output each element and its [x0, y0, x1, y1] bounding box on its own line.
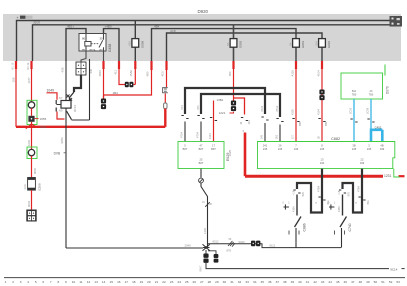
svg-text:241: 241 — [263, 144, 268, 148]
svg-text:26: 26 — [192, 280, 196, 284]
svg-text:43: 43 — [321, 280, 325, 284]
wire 1600 bus (thick red) — [16, 109, 165, 127]
wire 9000 — [31, 156, 33, 178]
svg-text:B61: B61 — [324, 121, 328, 126]
svg-text:5: 5 — [184, 144, 186, 148]
svg-text:33: 33 — [245, 280, 249, 284]
svg-text:N9: N9 — [59, 108, 63, 112]
svg-text:47: 47 — [200, 144, 203, 148]
svg-text:B29: B29 — [302, 192, 305, 197]
svg-text:3100: 3100 — [33, 21, 40, 25]
svg-text:E059: E059 — [140, 40, 144, 47]
svg-text:+4B0: +4B0 — [105, 25, 112, 29]
node 1221 stub — [230, 112, 234, 113]
svg-text:5A: 5A — [226, 42, 230, 45]
svg-text:=1B: =1B — [338, 190, 341, 195]
wire K1 12 exit (x31.5) — [30, 61, 32, 69]
svg-text:490: 490 — [84, 67, 88, 72]
wire 4T84 (C882 pin feed, switch C740) — [343, 169, 363, 213]
wire 3B10 exit (x103.5 relay 87) — [102, 61, 104, 69]
svg-text:B78: B78 — [348, 192, 351, 197]
cyan jumper C402 — [370, 129, 373, 142]
svg-text:28: 28 — [208, 280, 212, 284]
svg-text:245: 245 — [263, 147, 268, 151]
svg-text:=1B: =1B — [292, 190, 295, 195]
svg-text:4T84: 4T84 — [357, 186, 361, 192]
svg-text:7: 7 — [50, 280, 52, 284]
wire 4B1+ (bridge to relay coil) — [66, 29, 86, 61]
wire down to ground bus via connectors — [166, 70, 168, 87]
svg-text:22: 22 — [162, 280, 166, 284]
wire K1 15 exit (x16) — [15, 61, 17, 69]
splice at lamp bus — [26, 122, 38, 129]
svg-text:10B: 10B — [11, 77, 15, 82]
svg-text:TB0: TB0 — [369, 94, 374, 97]
svg-text:B0T: B0T — [199, 147, 204, 151]
lamp B60 (lower, green highlight) — [27, 147, 37, 159]
svg-text:26: 26 — [317, 136, 321, 139]
svg-text:41: 41 — [306, 280, 310, 284]
ruler numbers — [5, 280, 400, 284]
svg-text:245: 245 — [367, 147, 372, 151]
module E629 — [178, 142, 224, 169]
svg-text:4T24: 4T24 — [180, 132, 184, 138]
wire 2C06 (cyan) — [370, 99, 372, 130]
splice fan 878 — [228, 241, 235, 247]
svg-text:3: 3 — [368, 144, 370, 148]
legend +30 — [17, 16, 33, 20]
junction to 1331 branch — [234, 98, 245, 115]
svg-text:9040: 9040 — [239, 240, 245, 244]
svg-text:43B6: 43B6 — [338, 206, 341, 212]
svg-text:9050: 9050 — [60, 137, 64, 144]
connector 4-cell end — [26, 210, 36, 222]
svg-text:B61: B61 — [367, 200, 370, 205]
svg-text:49: 49 — [366, 280, 370, 284]
svg-text:E061: E061 — [301, 40, 305, 47]
svg-text:E206: E206 — [38, 183, 42, 191]
svg-text:4714: 4714 — [275, 105, 279, 112]
wire 1400 (jog to x207.5) — [201, 183, 208, 248]
svg-text:3B: 3B — [352, 144, 355, 148]
wire 1B4 (to connector 1204) — [104, 70, 152, 95]
svg-text:35: 35 — [260, 280, 264, 284]
svg-text:43B: 43B — [60, 67, 64, 72]
svg-text:049: 049 — [360, 161, 365, 165]
svg-text:8: 8 — [58, 280, 60, 284]
splice star S207 — [203, 244, 210, 251]
inline connector pair on U-link — [125, 82, 129, 87]
svg-text:8012: 8012 — [213, 240, 219, 244]
svg-text:4B0: 4B0 — [146, 71, 150, 76]
wire 15A0 exit (x135.3) — [134, 61, 136, 69]
svg-text:D920: D920 — [198, 9, 209, 14]
svg-text:1B0: 1B0 — [228, 71, 232, 76]
switch C740 — [329, 204, 334, 209]
svg-text:0,: 0, — [315, 201, 318, 203]
svg-text:50: 50 — [374, 280, 378, 284]
wire 9004 — [31, 190, 33, 209]
wire 1231 main red bus — [245, 175, 383, 178]
svg-text:267A: 267A — [89, 48, 96, 52]
svg-text:4118: 4118 — [291, 109, 295, 115]
svg-text:240: 240 — [320, 161, 325, 165]
connector X1 (right end of rails) — [390, 16, 403, 27]
svg-text:87: 87 — [100, 48, 104, 52]
svg-text:D970: D970 — [385, 86, 389, 94]
wire 4C8 exit (x166.5) — [165, 61, 167, 70]
ground pin stub D970 — [384, 65, 386, 76]
wire 1077 down to lamp — [31, 69, 33, 102]
svg-text:TB0: TB0 — [352, 94, 357, 97]
pin of switch C886 — [293, 190, 300, 193]
svg-text:+: + — [17, 16, 19, 20]
svg-text:36: 36 — [268, 280, 272, 284]
connector below splice — [205, 250, 207, 254]
svg-text:46: 46 — [343, 280, 347, 284]
svg-text:1331: 1331 — [208, 133, 212, 139]
svg-text:1231: 1231 — [384, 174, 392, 178]
svg-text:13: 13 — [321, 157, 324, 161]
wire 1925 thick red feed — [244, 133, 247, 177]
svg-text:23: 23 — [170, 280, 174, 284]
wire 1600 down — [31, 129, 33, 150]
svg-text:7: 7 — [295, 144, 297, 148]
svg-text:1B4: 1B4 — [113, 91, 119, 95]
wire 474 (E629 pin to C882) — [185, 88, 265, 114]
svg-text:2: 2 — [12, 280, 14, 284]
svg-text:17: 17 — [125, 280, 129, 284]
svg-text:B61: B61 — [298, 121, 302, 126]
svg-text:8: 8 — [321, 144, 323, 148]
svg-text:9C14: 9C14 — [390, 267, 398, 271]
svg-text:53: 53 — [396, 280, 400, 284]
svg-text:C882: C882 — [331, 137, 340, 141]
wire 4104 exit (x322 from fuse E091) — [321, 61, 323, 69]
svg-text:5: 5 — [35, 280, 37, 284]
svg-text:1400: 1400 — [203, 227, 207, 234]
rail 2 (3100 bus) — [33, 25, 391, 61]
svg-text:51: 51 — [381, 280, 385, 284]
svg-text:39: 39 — [291, 280, 295, 284]
inline connector on 4104 — [319, 90, 324, 95]
svg-text:24: 24 — [177, 280, 181, 284]
svg-text:27: 27 — [200, 280, 204, 284]
splice box 9C16 — [61, 101, 71, 109]
svg-text:86: 86 — [82, 36, 86, 40]
wire +4B0 (bridge from relay contact 30) — [104, 29, 120, 61]
wire 9C14 — [206, 263, 389, 269]
connector second — [208, 251, 216, 254]
svg-text:049: 049 — [380, 147, 385, 151]
wire 4TB4 (C882 pin feed, switch C886) — [297, 169, 322, 213]
splice symbol below E629 — [199, 178, 204, 183]
svg-text:9007: 9007 — [198, 265, 202, 271]
rail 1 (+30 bus) — [17, 21, 391, 62]
power distribution band background — [3, 14, 401, 61]
svg-text:1600: 1600 — [40, 125, 47, 129]
svg-text:13B1: 13B1 — [217, 98, 224, 102]
inline connector pair bottom — [251, 241, 255, 247]
svg-text:40: 40 — [298, 280, 302, 284]
svg-text:13: 13 — [94, 280, 98, 284]
lamp B55 (upper, green highlight) — [27, 100, 37, 124]
svg-text:E093: E093 — [239, 40, 243, 47]
wire 1B exit (x233.5) — [232, 61, 234, 69]
svg-text:29: 29 — [215, 280, 219, 284]
wire U-link x119 to fuse E059 lead — [119, 69, 135, 85]
svg-text:C402: C402 — [375, 125, 382, 129]
svg-text:471: 471 — [196, 105, 200, 110]
svg-text:245: 245 — [352, 147, 357, 151]
svg-text:5: 5 — [243, 129, 245, 133]
svg-text:85: 85 — [82, 48, 86, 52]
svg-text:44: 44 — [328, 280, 332, 284]
svg-text:2C05: 2C05 — [349, 107, 353, 114]
switch C886 — [284, 204, 289, 209]
svg-text:0,: 0, — [355, 201, 358, 203]
svg-text:E629: E629 — [226, 153, 230, 161]
svg-text:4B: 4B — [380, 144, 383, 148]
wire 471 (E629 pin to C882) — [201, 94, 280, 117]
svg-text:38: 38 — [283, 280, 287, 284]
svg-text:30: 30 — [100, 36, 104, 40]
svg-text:44: 44 — [240, 121, 243, 124]
svg-text:8112: 8112 — [270, 243, 276, 247]
svg-text:1: 1 — [5, 280, 7, 284]
svg-text:B9T: B9T — [211, 147, 216, 151]
svg-text:B6T: B6T — [183, 147, 188, 151]
svg-text:G438: G438 — [108, 44, 112, 52]
svg-text:11: 11 — [79, 280, 82, 284]
svg-text:1: 1 — [334, 201, 336, 204]
wire relay 85 to connector — [81, 51, 86, 62]
svg-text:1655: 1655 — [40, 117, 47, 121]
svg-text:4C8: 4C8 — [170, 29, 176, 33]
svg-text:9C16: 9C16 — [73, 104, 77, 112]
fuse E206 — [28, 178, 36, 191]
wire 13B1 (red to E629 pin 17) — [213, 101, 215, 142]
svg-text:1221: 1221 — [219, 111, 226, 115]
svg-text:4TB4: 4TB4 — [317, 185, 321, 192]
svg-text:DVB: DVB — [54, 152, 61, 156]
svg-text:878: 878 — [227, 249, 232, 253]
svg-text:1049: 1049 — [47, 89, 55, 93]
svg-text:C740: C740 — [348, 223, 352, 231]
svg-text:48: 48 — [359, 280, 363, 284]
ruler baseline — [4, 277, 405, 279]
svg-text:N7: N7 — [59, 96, 63, 100]
svg-text:41A: 41A — [128, 41, 132, 46]
svg-text:16: 16 — [117, 280, 121, 284]
connector 4-way on relay coil return (x81) — [76, 62, 86, 75]
wire 2C05 (cyan) — [353, 99, 355, 142]
wire 9050 bottom run — [66, 247, 203, 249]
svg-text:2040: 2040 — [185, 244, 192, 248]
svg-text:14: 14 — [102, 280, 106, 284]
svg-text:5A: 5A — [288, 42, 292, 45]
svg-text:249: 249 — [294, 147, 299, 151]
svg-text:30: 30 — [223, 280, 227, 284]
wire 43B exit (x66) — [65, 61, 67, 101]
fuse E093 — [226, 39, 243, 48]
svg-text:9: 9 — [65, 280, 67, 284]
svg-text:01: 01 — [202, 201, 205, 204]
svg-text:25: 25 — [185, 280, 189, 284]
svg-text:4T34: 4T34 — [196, 132, 200, 138]
svg-text:4104: 4104 — [316, 70, 320, 77]
svg-text:15A0: 15A0 — [129, 70, 133, 77]
svg-text:1.0A: 1.0A — [24, 184, 27, 189]
svg-text:50: 50 — [229, 238, 232, 241]
node 1655 — [35, 118, 39, 120]
wire tap to fuse E059 — [134, 21, 136, 62]
svg-text:12: 12 — [87, 280, 91, 284]
svg-text:B0T: B0T — [199, 161, 204, 165]
connector 1204 (end of wire 3B10/1B4) — [103, 95, 105, 99]
svg-text:474: 474 — [180, 105, 184, 110]
wire relay 87 down — [103, 51, 105, 61]
wire relay coil return stair — [74, 75, 81, 92]
svg-text:4724: 4724 — [260, 105, 264, 112]
wire E629 ground pin — [200, 169, 202, 178]
svg-text:32: 32 — [238, 280, 242, 284]
svg-text:25: 25 — [200, 157, 203, 161]
wire 4B4 exit (x151.5) — [150, 61, 152, 70]
svg-text:4B4: 4B4 — [154, 25, 160, 29]
svg-text:42: 42 — [313, 280, 317, 284]
fuse E061 — [288, 39, 305, 48]
wire 4B4 rail segment — [152, 29, 297, 61]
svg-text:15: 15 — [109, 280, 113, 284]
module D970 — [341, 73, 383, 99]
svg-text:C886: C886 — [303, 223, 307, 231]
inline connector on 1B0 — [231, 101, 236, 106]
svg-text:26: 26 — [279, 144, 282, 148]
svg-text:245: 245 — [278, 147, 283, 151]
fuse E091 — [314, 39, 331, 48]
svg-text:22: 22 — [361, 157, 364, 161]
wire 10B down to lamp bus — [15, 69, 17, 127]
svg-text:104: 104 — [248, 120, 251, 125]
svg-text:10: 10 — [72, 280, 76, 284]
svg-text:21: 21 — [155, 280, 159, 284]
wire from 1049 — [47, 93, 58, 100]
wire exit x119 — [118, 61, 120, 69]
svg-text:1600: 1600 — [27, 139, 31, 146]
svg-text:37: 37 — [276, 280, 280, 284]
svg-text:4: 4 — [27, 280, 29, 284]
svg-text:2C06: 2C06 — [366, 107, 370, 114]
svg-text:18: 18 — [132, 280, 136, 284]
svg-text:20: 20 — [147, 280, 151, 284]
svg-text:117: 117 — [291, 134, 295, 139]
svg-text:3B10: 3B10 — [98, 70, 102, 77]
svg-text:6: 6 — [42, 280, 44, 284]
svg-text:411: 411 — [114, 70, 118, 75]
svg-text:241: 241 — [260, 134, 264, 139]
svg-text:45: 45 — [336, 280, 340, 284]
svg-text:19: 19 — [140, 280, 144, 284]
svg-text:0: 0 — [283, 201, 285, 204]
svg-text:4104: 4104 — [317, 109, 321, 115]
relay G438 — [79, 34, 106, 52]
svg-text:E091: E091 — [327, 40, 331, 47]
svg-text:K1 12: K1 12 — [26, 62, 30, 69]
svg-text:52: 52 — [389, 280, 393, 284]
wire 9050 long vertical — [65, 108, 67, 248]
svg-text:34: 34 — [253, 280, 257, 284]
inline pill connector — [164, 103, 167, 109]
fuse E059 — [128, 39, 145, 48]
svg-text:9004: 9004 — [27, 200, 31, 207]
pin of switch C740 — [339, 190, 346, 193]
wire 490 (x89.5 to switch) — [89, 59, 91, 120]
module C882 — [258, 142, 395, 169]
switch contacts N7/N9 — [55, 100, 57, 112]
C882 ground stub — [394, 169, 400, 177]
svg-text:31: 31 — [230, 280, 234, 284]
svg-text:17: 17 — [212, 144, 215, 148]
wire tap to fuse E093 — [233, 25, 235, 61]
svg-text:1: 1 — [288, 201, 290, 204]
switch blade — [67, 111, 72, 120]
svg-text:3: 3 — [20, 280, 22, 284]
svg-text:245: 245 — [320, 147, 325, 151]
pin 5 of branch — [241, 118, 248, 121]
splice marks 2012 — [205, 202, 210, 207]
connector shell icon — [163, 88, 168, 93]
svg-text:K1 15: K1 15 — [11, 62, 15, 69]
svg-text:A118: A118 — [290, 70, 294, 77]
svg-text:1077: 1077 — [27, 77, 31, 84]
svg-text:4C0: 4C0 — [161, 71, 165, 77]
svg-text:261: 261 — [275, 134, 279, 139]
wire splice to switches — [208, 244, 341, 248]
svg-text:9000: 9000 — [33, 167, 37, 174]
wire blade to 490 — [72, 119, 90, 121]
wire 4C8 rail segment — [167, 33, 323, 61]
svg-text:28: 28 — [209, 203, 212, 206]
svg-text:15A: 15A — [314, 41, 318, 46]
wire A118 exit (x296 from fuse E061) — [295, 61, 297, 69]
svg-text:47: 47 — [351, 280, 355, 284]
svg-text:43B6: 43B6 — [292, 206, 295, 212]
svg-text:4B1+: 4B1+ — [67, 25, 74, 29]
